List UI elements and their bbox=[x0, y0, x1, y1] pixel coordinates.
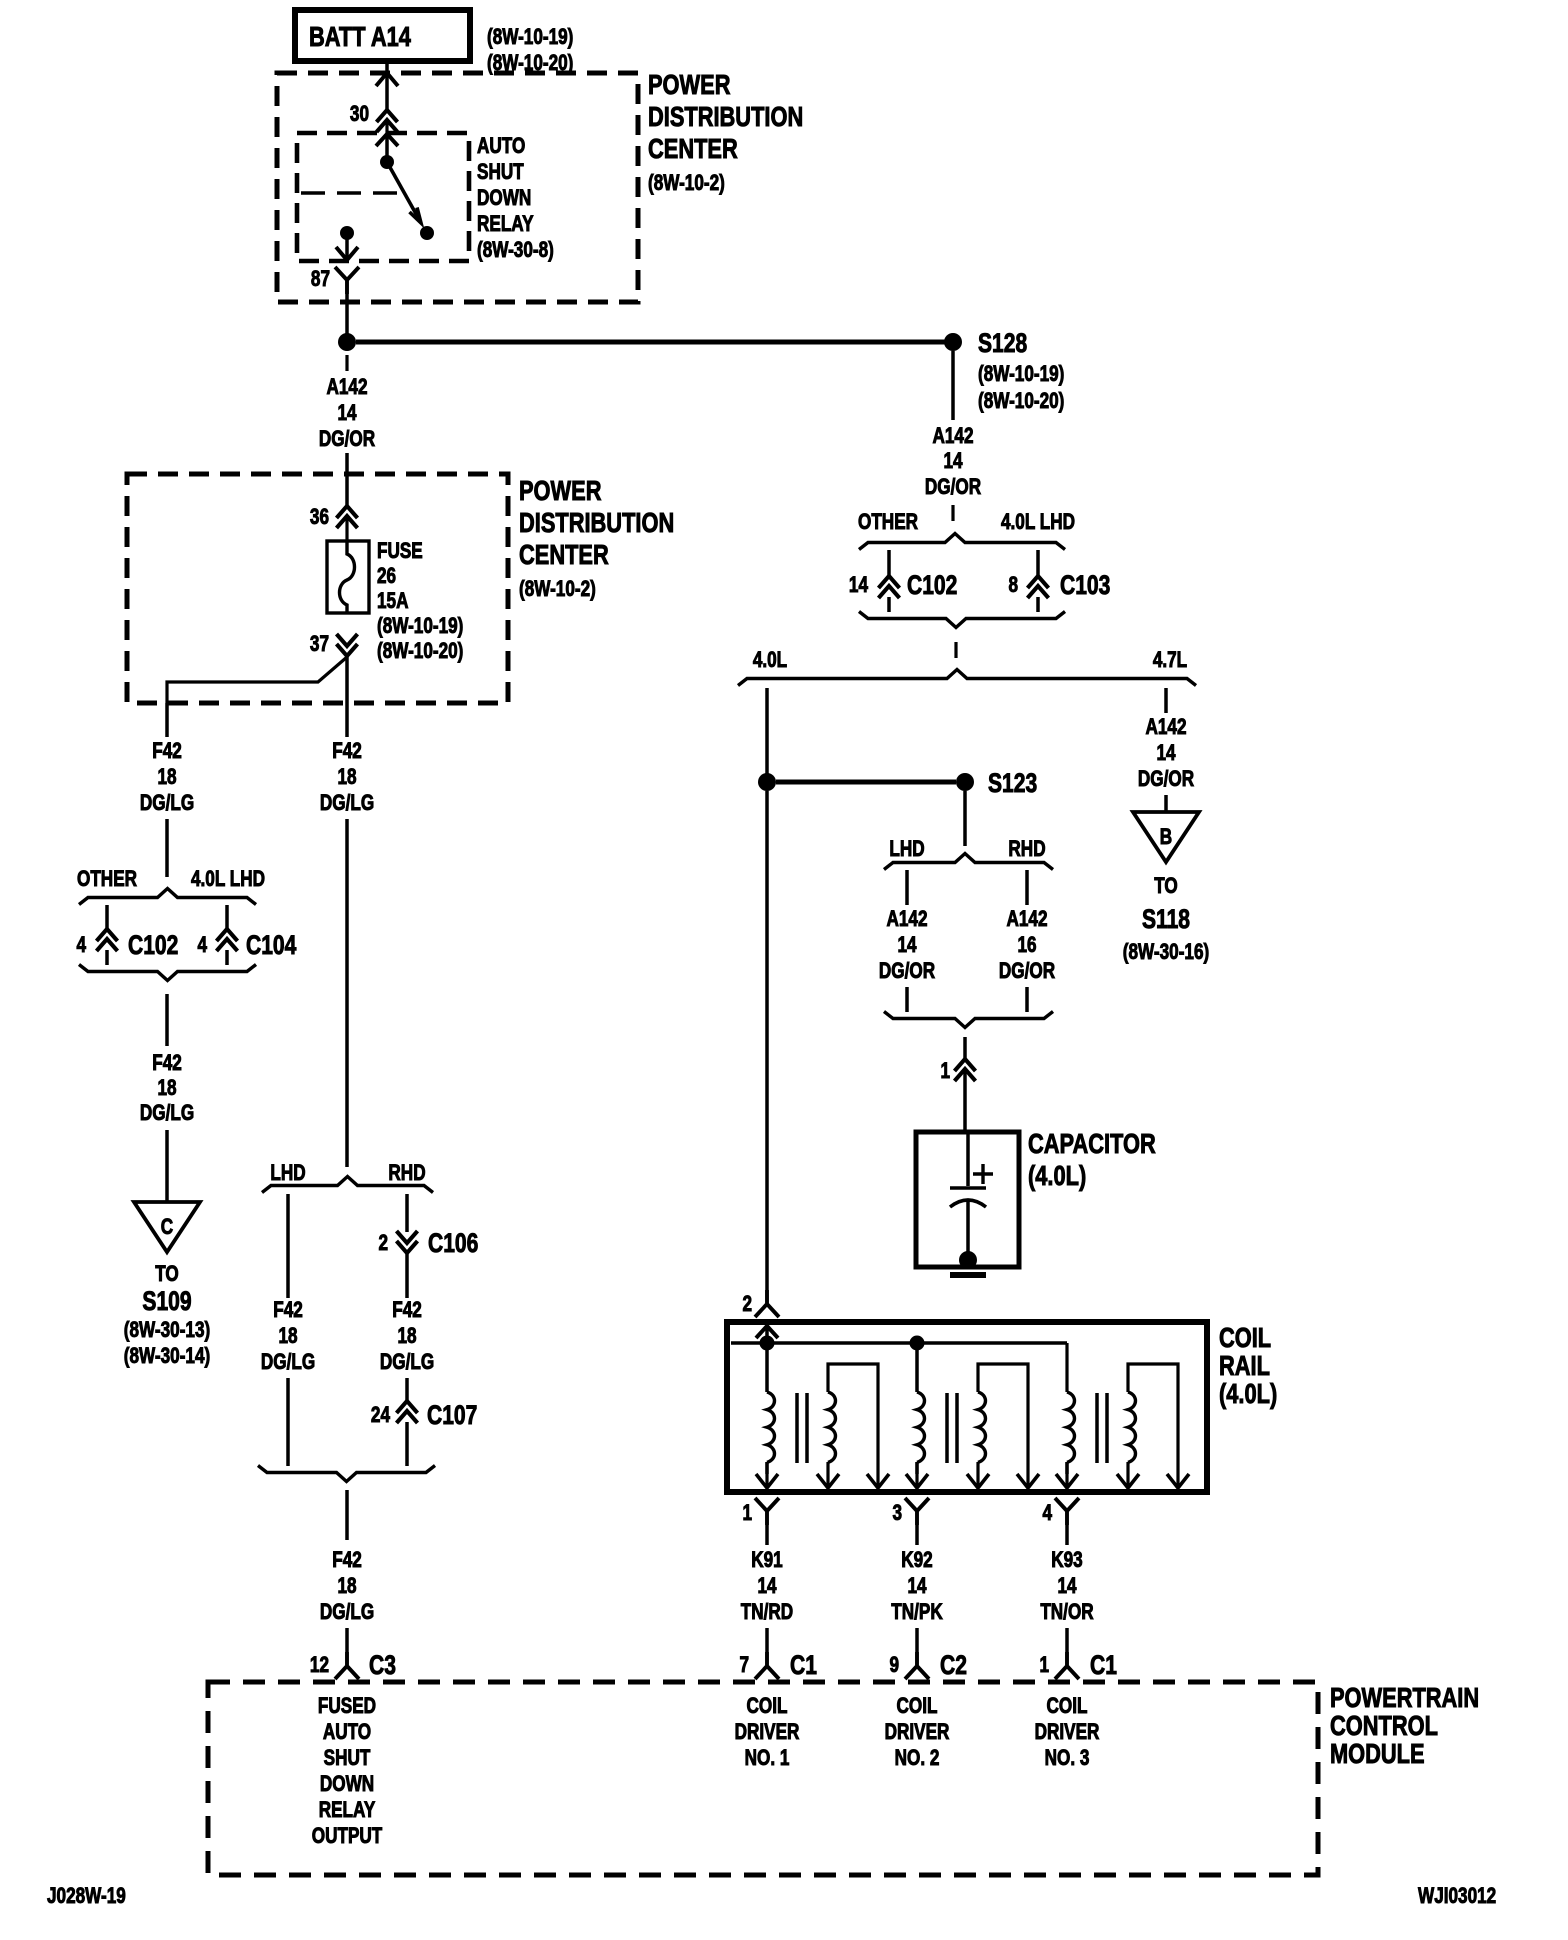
svg-text:C3: C3 bbox=[369, 1651, 396, 1681]
svg-text:A142: A142 bbox=[1145, 715, 1186, 740]
svg-text:NO. 1: NO. 1 bbox=[745, 1746, 790, 1771]
ignition coil 2 core bbox=[945, 1393, 949, 1463]
wire to capacitor pin 1 bbox=[963, 1037, 967, 1058]
svg-text:7: 7 bbox=[739, 1653, 749, 1678]
svg-text:(8W-30-14): (8W-30-14) bbox=[124, 1344, 210, 1369]
svg-text:18: 18 bbox=[157, 765, 176, 790]
svg-text:DRIVER: DRIVER bbox=[1035, 1720, 1100, 1745]
svg-text:14: 14 bbox=[849, 573, 868, 598]
svg-text:14: 14 bbox=[1156, 741, 1175, 766]
PCM pin 7 connector C1 bbox=[765, 1628, 769, 1652]
svg-text:TO: TO bbox=[155, 1262, 179, 1287]
relay output contact dot bbox=[340, 226, 354, 240]
wire pin 87 down to splice node bbox=[345, 294, 349, 336]
svg-text:(4.0L): (4.0L) bbox=[1028, 1160, 1086, 1191]
center drop wire below PDC bbox=[345, 703, 349, 737]
merge brace to single F42 bbox=[258, 1466, 435, 1482]
svg-text:C1: C1 bbox=[1090, 1651, 1117, 1681]
RHD wire below C106 bbox=[405, 1254, 409, 1298]
powertrain control module dashed box bbox=[208, 1682, 1318, 1875]
svg-text:C: C bbox=[161, 1215, 173, 1240]
svg-text:DG/LG: DG/LG bbox=[140, 791, 194, 816]
svg-text:(8W-30-16): (8W-30-16) bbox=[1123, 940, 1209, 965]
4.7L branch wire bbox=[1164, 688, 1168, 713]
wire from fuse down through box bbox=[345, 657, 349, 703]
svg-text:DG/OR: DG/OR bbox=[925, 475, 981, 500]
ignition coil 3 primary winding bbox=[1065, 1390, 1069, 1394]
svg-text:C103: C103 bbox=[1060, 571, 1110, 601]
svg-text:DISTRIBUTION: DISTRIBUTION bbox=[519, 507, 674, 538]
wires below and merge brace right bbox=[887, 597, 891, 612]
bus wire to S123 bbox=[776, 780, 956, 785]
wire to PCM pin 12 bbox=[345, 1628, 349, 1652]
branch wires to C102 C103 bbox=[887, 550, 891, 575]
PCM pin 9 connector C2 bbox=[915, 1628, 919, 1652]
svg-text:POWERTRAIN: POWERTRAIN bbox=[1330, 1682, 1479, 1713]
svg-text:MODULE: MODULE bbox=[1330, 1738, 1425, 1769]
svg-text:36: 36 bbox=[310, 505, 329, 530]
wire to off-page connector B bbox=[1164, 795, 1168, 812]
svg-text:DOWN: DOWN bbox=[320, 1772, 374, 1797]
svg-text:A142: A142 bbox=[1006, 907, 1047, 932]
branch wires bbox=[905, 870, 909, 905]
coil rail box bbox=[727, 1322, 1207, 1492]
svg-text:15A: 15A bbox=[377, 589, 408, 614]
svg-text:F42: F42 bbox=[392, 1298, 422, 1323]
svg-text:C106: C106 bbox=[428, 1229, 478, 1259]
svg-text:K93: K93 bbox=[1051, 1548, 1082, 1573]
svg-text:TN/RD: TN/RD bbox=[741, 1600, 793, 1625]
relay common contact dot bbox=[380, 155, 394, 169]
off-page connector triangle C bbox=[134, 1202, 200, 1252]
svg-text:TO: TO bbox=[1154, 874, 1178, 899]
svg-text:CENTER: CENTER bbox=[648, 133, 738, 164]
wire S123 down to LHD RHD split bbox=[963, 791, 967, 846]
power distribution center fuse dashed box bbox=[127, 474, 508, 703]
svg-text:4.7L: 4.7L bbox=[1153, 648, 1187, 673]
svg-text:DG/OR: DG/OR bbox=[1138, 767, 1194, 792]
left drop wire below PDC bbox=[165, 703, 169, 737]
svg-text:14: 14 bbox=[943, 449, 962, 474]
relay arrow into common bbox=[376, 134, 398, 146]
svg-text:DG/OR: DG/OR bbox=[879, 959, 935, 984]
ignition coil 1 primary winding bbox=[765, 1343, 769, 1392]
arrow up into coil rail bbox=[756, 1326, 778, 1338]
svg-text:4.0L: 4.0L bbox=[753, 648, 787, 673]
coil rail internal bus bbox=[731, 1341, 1067, 1345]
svg-text:(8W-10-19): (8W-10-19) bbox=[978, 362, 1064, 387]
svg-text:F42: F42 bbox=[152, 1051, 182, 1076]
svg-text:(8W-10-19): (8W-10-19) bbox=[487, 25, 573, 50]
RHD wire to C107 bbox=[405, 1378, 409, 1400]
svg-text:C1: C1 bbox=[790, 1651, 817, 1681]
svg-text:OTHER: OTHER bbox=[858, 510, 918, 535]
svg-text:POWER: POWER bbox=[648, 69, 730, 100]
bus dot coil 1 bbox=[760, 1336, 775, 1351]
LHD wire down to merge bbox=[286, 1378, 290, 1466]
branch wires to C102 C104 bbox=[105, 905, 109, 928]
svg-text:RHD: RHD bbox=[388, 1161, 425, 1186]
svg-text:14: 14 bbox=[757, 1574, 776, 1599]
svg-text:A142: A142 bbox=[326, 375, 367, 400]
svg-text:24: 24 bbox=[371, 1403, 390, 1428]
svg-text:4: 4 bbox=[197, 933, 207, 958]
svg-text:16: 16 bbox=[1017, 933, 1036, 958]
svg-text:SHUT: SHUT bbox=[477, 160, 524, 185]
svg-text:1: 1 bbox=[742, 1501, 752, 1526]
bus dot coil 2 bbox=[910, 1336, 925, 1351]
ignition coil 1 core bbox=[795, 1393, 799, 1463]
center wire down to LHD/RHD split bbox=[345, 819, 349, 1167]
svg-text:S128: S128 bbox=[978, 329, 1027, 359]
svg-text:4.0L LHD: 4.0L LHD bbox=[1001, 510, 1075, 535]
wire to OTHER/4.0L LHD split bbox=[165, 819, 169, 877]
svg-text:BATT A14: BATT A14 bbox=[309, 21, 411, 52]
capacitor plates bbox=[950, 1186, 986, 1190]
wire below merge to F42 label bbox=[165, 994, 169, 1046]
svg-text:DG/LG: DG/LG bbox=[261, 1350, 315, 1375]
svg-text:F42: F42 bbox=[332, 739, 362, 764]
ignition coil 3 secondary winding bbox=[1128, 1364, 1178, 1487]
relay switch arm with arrow bbox=[387, 162, 420, 221]
svg-text:A142: A142 bbox=[932, 424, 973, 449]
ignition coil 2 secondary winding bbox=[978, 1364, 1028, 1487]
battery feed box BATT A14 bbox=[295, 10, 470, 61]
wire 4.0L branch down to coil rail pin 2 bbox=[765, 791, 769, 1290]
svg-text:2: 2 bbox=[742, 1292, 752, 1317]
svg-text:4.0L LHD: 4.0L LHD bbox=[191, 867, 265, 892]
svg-text:NO. 3: NO. 3 bbox=[1045, 1746, 1090, 1771]
svg-text:RELAY: RELAY bbox=[477, 212, 534, 237]
svg-text:2: 2 bbox=[378, 1231, 388, 1256]
capacitor internal wire and plus bbox=[966, 1132, 970, 1186]
svg-text:(8W-10-19): (8W-10-19) bbox=[377, 614, 463, 639]
svg-text:COIL: COIL bbox=[1219, 1322, 1271, 1353]
svg-text:14: 14 bbox=[337, 401, 356, 426]
svg-text:DOWN: DOWN bbox=[477, 186, 531, 211]
svg-text:3: 3 bbox=[892, 1501, 902, 1526]
svg-text:C104: C104 bbox=[246, 931, 297, 961]
relay coil dashed line bbox=[301, 191, 401, 194]
svg-text:30: 30 bbox=[350, 102, 369, 127]
svg-text:DRIVER: DRIVER bbox=[885, 1720, 950, 1745]
svg-text:C2: C2 bbox=[940, 1651, 967, 1681]
svg-text:9: 9 bbox=[889, 1653, 899, 1678]
svg-text:OTHER: OTHER bbox=[77, 867, 137, 892]
svg-text:(8W-30-13): (8W-30-13) bbox=[124, 1318, 210, 1343]
svg-text:CENTER: CENTER bbox=[519, 539, 609, 570]
svg-text:12: 12 bbox=[310, 1653, 329, 1678]
relay output arrow down to pin 87 bbox=[345, 238, 349, 257]
ignition coil 2 primary winding bbox=[915, 1343, 919, 1392]
svg-text:SHUT: SHUT bbox=[324, 1746, 371, 1771]
arrowhead up at PDC entry bbox=[376, 73, 398, 86]
svg-text:COIL: COIL bbox=[1047, 1694, 1088, 1719]
off-page connector triangle B bbox=[1133, 812, 1199, 862]
svg-text:CONTROL: CONTROL bbox=[1330, 1710, 1438, 1741]
svg-text:F42: F42 bbox=[332, 1548, 362, 1573]
svg-text:(8W-30-8): (8W-30-8) bbox=[477, 238, 554, 263]
svg-text:4: 4 bbox=[76, 933, 86, 958]
svg-text:37: 37 bbox=[310, 632, 329, 657]
svg-text:(4.0L): (4.0L) bbox=[1219, 1378, 1277, 1409]
svg-text:(8W-10-2): (8W-10-2) bbox=[519, 577, 596, 602]
svg-text:DG/LG: DG/LG bbox=[380, 1350, 434, 1375]
svg-text:WJI03012: WJI03012 bbox=[1418, 1884, 1496, 1909]
svg-text:18: 18 bbox=[278, 1324, 297, 1349]
wire S128 down bbox=[951, 351, 955, 420]
svg-text:COIL: COIL bbox=[897, 1694, 938, 1719]
wire to off-page connector C bbox=[165, 1130, 169, 1202]
capacitor box bbox=[916, 1132, 1019, 1267]
wire below merge bbox=[345, 1490, 349, 1540]
svg-text:TN/OR: TN/OR bbox=[1040, 1600, 1093, 1625]
hidden wire dash above split bbox=[951, 505, 954, 521]
svg-text:LHD: LHD bbox=[270, 1161, 305, 1186]
split brace LHD RHD bbox=[262, 1177, 433, 1193]
svg-text:AUTO: AUTO bbox=[477, 134, 525, 159]
svg-text:1: 1 bbox=[1039, 1653, 1049, 1678]
LHD branch wire bbox=[286, 1194, 290, 1298]
svg-text:(8W-10-20): (8W-10-20) bbox=[978, 389, 1064, 414]
svg-text:TN/PK: TN/PK bbox=[891, 1600, 943, 1625]
hidden wire dash below merge bbox=[954, 642, 957, 658]
svg-text:18: 18 bbox=[337, 1574, 356, 1599]
capacitor ground dot and bar bbox=[959, 1251, 977, 1269]
svg-text:14: 14 bbox=[1057, 1574, 1076, 1599]
connector chevron pin 30 bbox=[377, 110, 398, 122]
relay NO contact dot bbox=[420, 226, 434, 240]
wire K92 labels bbox=[915, 1525, 919, 1545]
ignition coil 3 core bbox=[1095, 1393, 1099, 1463]
split brace left group bbox=[79, 889, 256, 905]
wire K93 labels bbox=[1065, 1525, 1069, 1545]
svg-text:B: B bbox=[1160, 825, 1172, 850]
wire into PDC fuse box bbox=[345, 453, 349, 505]
svg-text:(8W-10-20): (8W-10-20) bbox=[377, 639, 463, 664]
hidden wire dash below junction bbox=[345, 355, 348, 371]
svg-text:4: 4 bbox=[1042, 1501, 1052, 1526]
splice S128 dot and label bbox=[944, 333, 962, 351]
svg-text:OUTPUT: OUTPUT bbox=[312, 1824, 383, 1849]
svg-text:DISTRIBUTION: DISTRIBUTION bbox=[648, 101, 803, 132]
wires below C102 C104 and merge brace bbox=[105, 950, 109, 965]
svg-text:DG/LG: DG/LG bbox=[320, 1600, 374, 1625]
svg-text:S109: S109 bbox=[142, 1287, 191, 1317]
svg-text:NO. 2: NO. 2 bbox=[895, 1746, 940, 1771]
junction node dot 4.0L branch bbox=[758, 773, 776, 791]
wire K91 labels bbox=[765, 1525, 769, 1545]
splice S123 dot and label bbox=[956, 773, 974, 791]
power distribution center dashed box bbox=[277, 73, 638, 302]
PCM pin 1 connector C1 bbox=[1065, 1628, 1069, 1652]
svg-text:LHD: LHD bbox=[889, 837, 924, 862]
svg-text:C102: C102 bbox=[907, 571, 957, 601]
svg-text:C102: C102 bbox=[128, 931, 178, 961]
svg-text:FUSED: FUSED bbox=[318, 1694, 376, 1719]
svg-text:DG/OR: DG/OR bbox=[999, 959, 1055, 984]
split brace 4.0L 4.7L wide bbox=[738, 670, 1196, 686]
svg-text:DRIVER: DRIVER bbox=[735, 1720, 800, 1745]
svg-text:RELAY: RELAY bbox=[319, 1798, 376, 1823]
svg-text:8: 8 bbox=[1008, 573, 1018, 598]
fuse 26 15A bbox=[327, 541, 369, 613]
auto shut down relay dashed box bbox=[297, 133, 469, 261]
svg-text:(8W-10-2): (8W-10-2) bbox=[648, 171, 725, 196]
svg-text:S118: S118 bbox=[1142, 905, 1190, 935]
svg-text:K91: K91 bbox=[751, 1548, 782, 1573]
svg-text:DG/LG: DG/LG bbox=[140, 1101, 194, 1126]
svg-text:F42: F42 bbox=[273, 1298, 303, 1323]
svg-text:FUSE: FUSE bbox=[377, 539, 423, 564]
svg-text:18: 18 bbox=[397, 1324, 416, 1349]
svg-text:RAIL: RAIL bbox=[1219, 1350, 1270, 1381]
svg-text:18: 18 bbox=[337, 765, 356, 790]
svg-text:CAPACITOR: CAPACITOR bbox=[1028, 1128, 1156, 1159]
bus wire to S128 bbox=[356, 340, 945, 345]
RHD branch wire to C106 bbox=[405, 1194, 409, 1232]
svg-text:1: 1 bbox=[940, 1059, 950, 1084]
svg-text:AUTO: AUTO bbox=[323, 1720, 371, 1745]
svg-text:14: 14 bbox=[897, 933, 916, 958]
wire BATT to relay pin 30 bbox=[385, 61, 389, 109]
svg-text:A142: A142 bbox=[886, 907, 927, 932]
wires down to merge brace bbox=[905, 987, 909, 1012]
split brace right LHD RHD bbox=[884, 854, 1053, 870]
svg-text:RHD: RHD bbox=[1008, 837, 1045, 862]
4.0L branch wire down to node bbox=[765, 688, 769, 776]
split brace right group bbox=[859, 534, 1065, 550]
svg-text:14: 14 bbox=[907, 1574, 926, 1599]
svg-text:C107: C107 bbox=[427, 1401, 477, 1431]
svg-text:26: 26 bbox=[377, 564, 396, 589]
svg-text:COIL: COIL bbox=[747, 1694, 788, 1719]
svg-text:18: 18 bbox=[157, 1076, 176, 1101]
ignition coil 1 secondary winding bbox=[828, 1364, 878, 1487]
pin 87 Y connector bbox=[335, 267, 359, 294]
svg-text:POWER: POWER bbox=[519, 475, 601, 506]
wire branch diagonal to left drop bbox=[167, 657, 347, 703]
svg-text:DG/OR: DG/OR bbox=[319, 427, 375, 452]
junction node dot below relay bbox=[338, 333, 356, 351]
svg-text:K92: K92 bbox=[901, 1548, 932, 1573]
svg-text:J028W-19: J028W-19 bbox=[47, 1884, 126, 1909]
svg-text:F42: F42 bbox=[152, 739, 182, 764]
svg-text:S123: S123 bbox=[988, 769, 1037, 799]
svg-text:87: 87 bbox=[311, 267, 330, 292]
svg-text:DG/LG: DG/LG bbox=[320, 791, 374, 816]
